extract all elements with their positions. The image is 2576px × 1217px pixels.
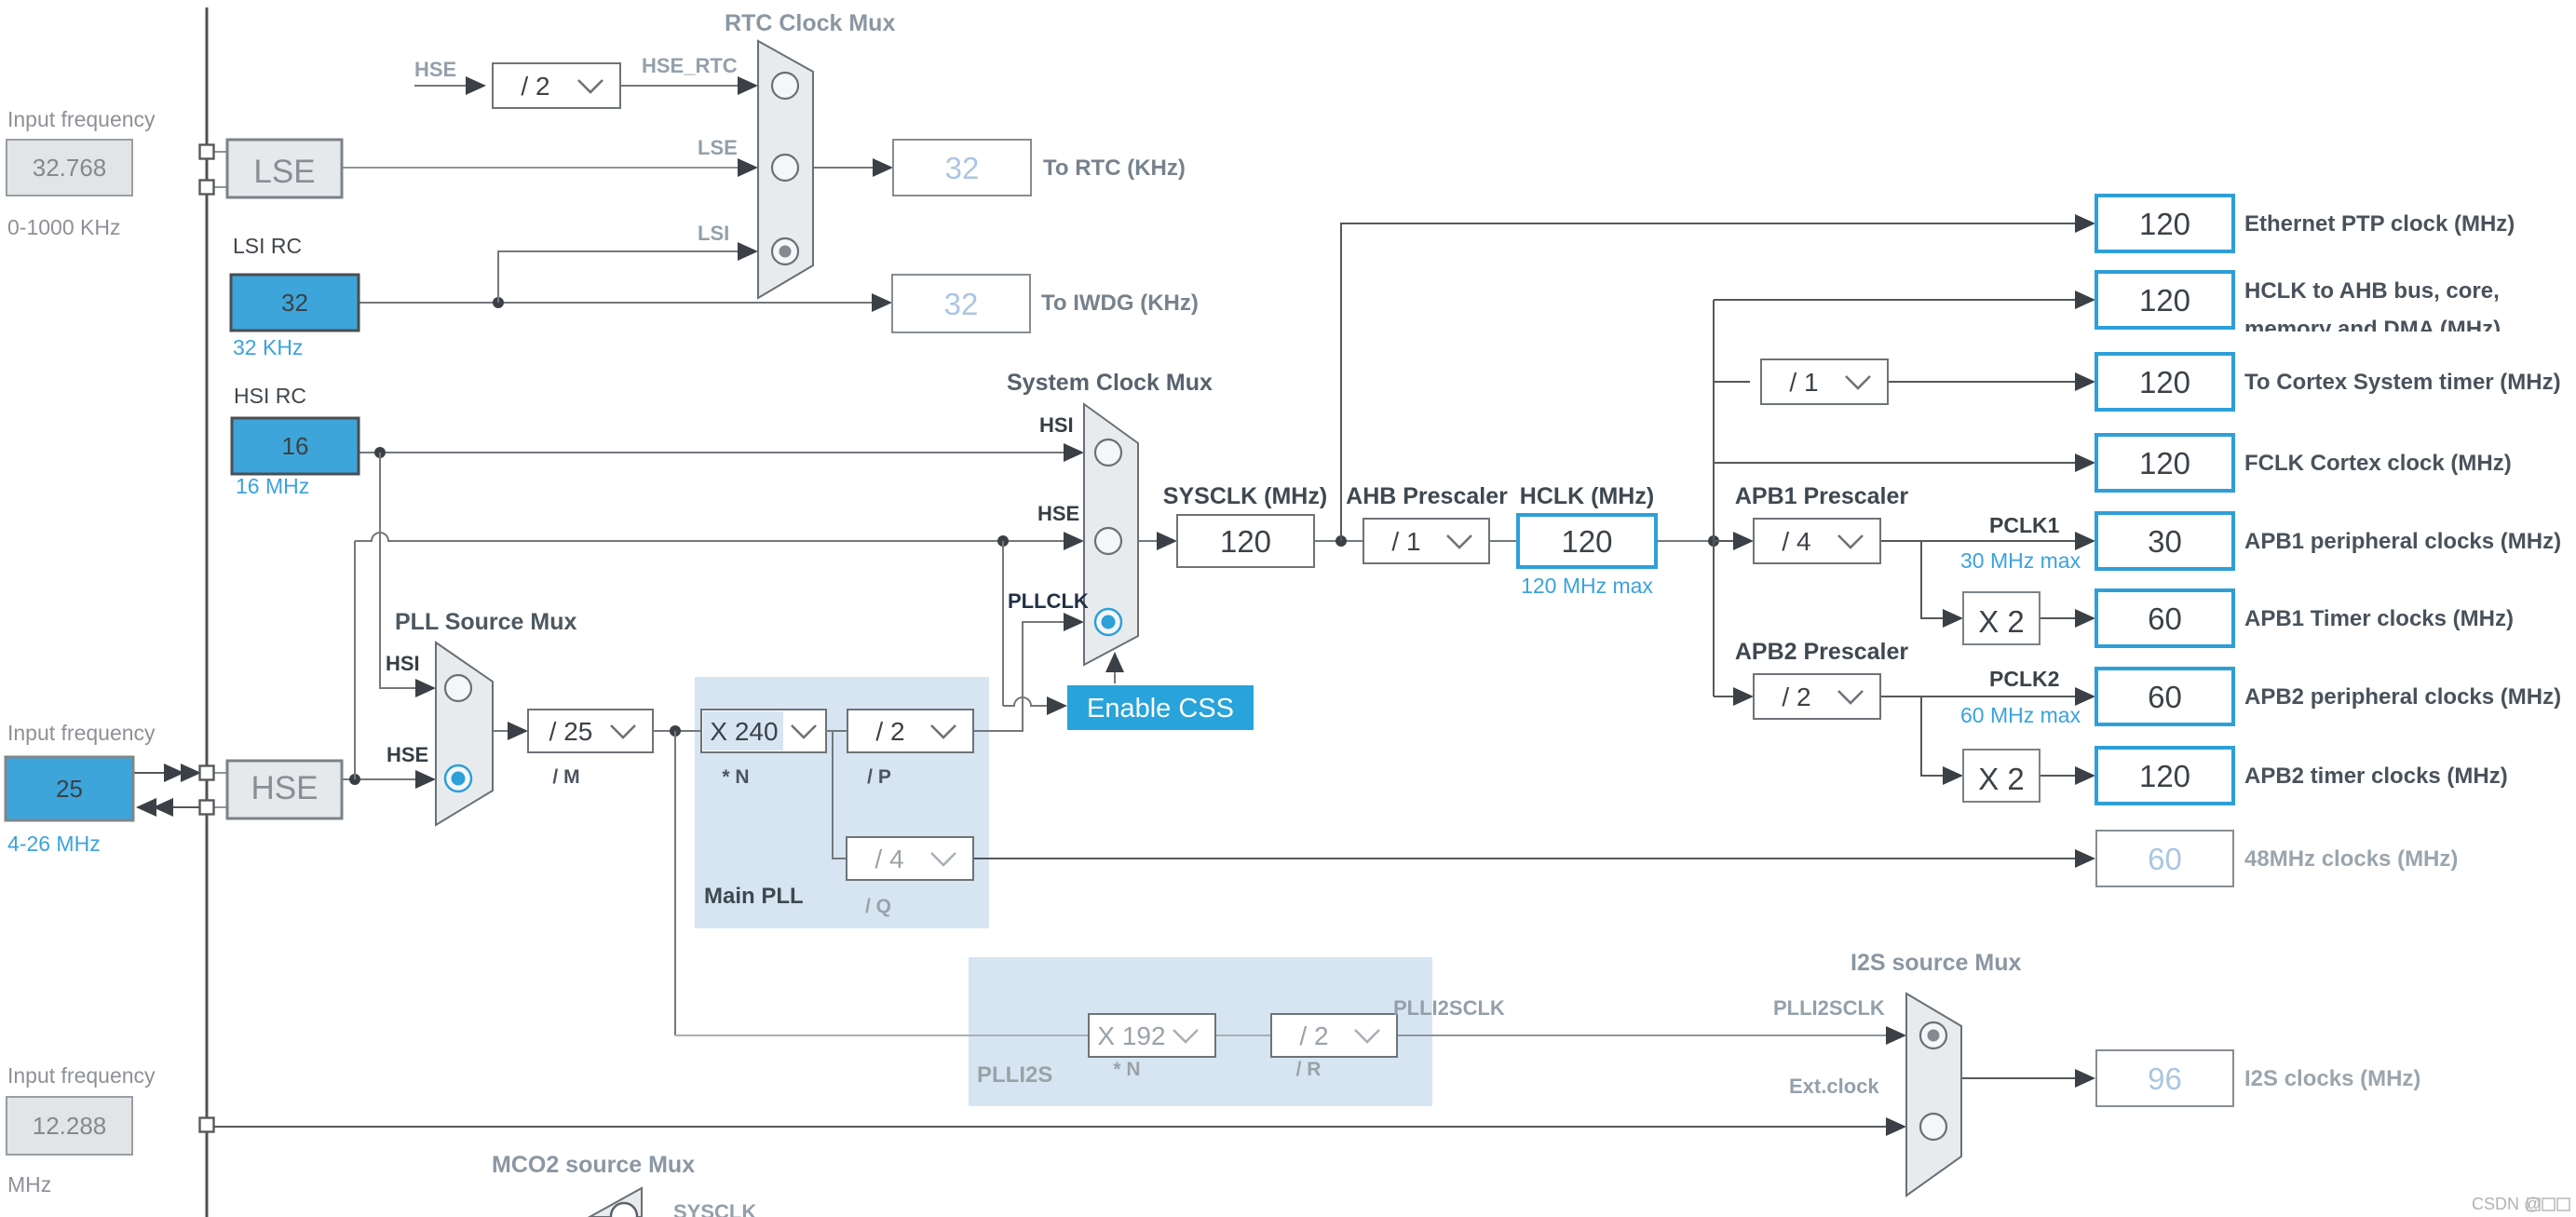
- svg-text:96: 96: [2148, 1061, 2182, 1096]
- svg-text:HSI: HSI: [1039, 413, 1074, 437]
- svg-text:4-26 MHz: 4-26 MHz: [7, 832, 101, 856]
- svg-text:/ 2: / 2: [875, 717, 904, 746]
- svg-text:To RTC (KHz): To RTC (KHz): [1043, 156, 1186, 181]
- svg-text:PLLI2S: PLLI2S: [977, 1062, 1052, 1088]
- svg-text:/ 25: / 25: [549, 717, 593, 746]
- svg-text:120: 120: [2139, 207, 2190, 241]
- svg-text:120 MHz max: 120 MHz max: [1521, 574, 1653, 598]
- svg-text:Ext.clock: Ext.clock: [1789, 1075, 1879, 1098]
- svg-text:16: 16: [282, 432, 309, 460]
- svg-text:60: 60: [2148, 680, 2182, 714]
- svg-text:32: 32: [945, 151, 980, 185]
- svg-text:HSE: HSE: [251, 770, 319, 806]
- svg-text:32.768: 32.768: [33, 154, 107, 182]
- svg-text:PLLCLK: PLLCLK: [1008, 589, 1089, 613]
- svg-text:HCLK (MHz): HCLK (MHz): [1520, 483, 1654, 509]
- svg-text:* N: * N: [1113, 1059, 1140, 1080]
- svg-text:120: 120: [2139, 283, 2190, 318]
- svg-text:32 KHz: 32 KHz: [233, 335, 303, 359]
- svg-text:120: 120: [2139, 365, 2190, 399]
- svg-text:X 192: X 192: [1097, 1021, 1165, 1050]
- svg-text:RTC Clock Mux: RTC Clock Mux: [725, 10, 895, 36]
- svg-text:/ 2: / 2: [1299, 1021, 1328, 1050]
- svg-text:PLL Source Mux: PLL Source Mux: [395, 609, 577, 635]
- svg-text:Input frequency: Input frequency: [7, 721, 156, 745]
- svg-text:120: 120: [1561, 524, 1612, 559]
- svg-text:/ 2: / 2: [521, 72, 549, 101]
- svg-text:30 MHz max: 30 MHz max: [1960, 548, 2081, 573]
- svg-text:MCO2 source Mux: MCO2 source Mux: [492, 1152, 695, 1178]
- svg-text:MHz: MHz: [7, 1172, 51, 1197]
- svg-text:LSI: LSI: [698, 222, 729, 245]
- svg-text:60: 60: [2148, 602, 2182, 636]
- svg-text:HSE: HSE: [414, 58, 456, 81]
- svg-text:HSI: HSI: [386, 652, 420, 675]
- svg-text:HCLK to AHB bus, core,: HCLK to AHB bus, core,: [2244, 278, 2500, 304]
- svg-text:Main PLL: Main PLL: [704, 884, 804, 909]
- svg-text:/ 4: / 4: [874, 845, 903, 873]
- svg-text:System Clock Mux: System Clock Mux: [1007, 370, 1213, 396]
- svg-text:120: 120: [2139, 446, 2190, 480]
- svg-text:APB2 peripheral clocks (MHz): APB2 peripheral clocks (MHz): [2244, 684, 2561, 710]
- svg-text:60 MHz max: 60 MHz max: [1960, 703, 2081, 727]
- svg-text:120: 120: [2139, 759, 2190, 793]
- svg-text:/ M: / M: [552, 766, 579, 788]
- svg-text:X 240: X 240: [710, 717, 778, 746]
- svg-text:* N: * N: [722, 766, 749, 788]
- svg-text:16 MHz: 16 MHz: [236, 474, 309, 498]
- svg-text:X 2: X 2: [1978, 604, 2025, 639]
- svg-text:HSI RC: HSI RC: [234, 384, 306, 408]
- svg-text:/ 4: / 4: [1782, 527, 1810, 556]
- svg-text:I2S clocks (MHz): I2S clocks (MHz): [2244, 1066, 2420, 1091]
- svg-text:/ P: / P: [867, 766, 891, 788]
- svg-text:Enable CSS: Enable CSS: [1087, 694, 1234, 723]
- svg-text:60: 60: [2148, 842, 2182, 876]
- svg-text:Input frequency: Input frequency: [7, 1063, 156, 1088]
- svg-text:/ 1: / 1: [1391, 527, 1420, 556]
- svg-text:APB2 Prescaler: APB2 Prescaler: [1735, 639, 1909, 665]
- svg-text:LSE: LSE: [698, 136, 738, 159]
- svg-text:PCLK2: PCLK2: [1989, 667, 2059, 691]
- svg-text:To IWDG (KHz): To IWDG (KHz): [1041, 291, 1199, 316]
- svg-text:/ R: / R: [1296, 1059, 1322, 1080]
- svg-text:120: 120: [1220, 524, 1271, 559]
- svg-text:LSE: LSE: [253, 154, 315, 190]
- svg-text:To Cortex System timer (MHz): To Cortex System timer (MHz): [2244, 370, 2561, 395]
- svg-text:I2S source Mux: I2S source Mux: [1851, 950, 2021, 976]
- svg-text:32: 32: [281, 289, 308, 317]
- svg-text:HSE_RTC: HSE_RTC: [642, 54, 738, 77]
- svg-text:AHB Prescaler: AHB Prescaler: [1346, 483, 1508, 509]
- svg-text:/ 2: / 2: [1782, 683, 1810, 711]
- svg-text:Ethernet PTP clock (MHz): Ethernet PTP clock (MHz): [2244, 211, 2515, 237]
- svg-text:X 2: X 2: [1978, 762, 2025, 796]
- svg-text:/ 1: / 1: [1789, 368, 1818, 397]
- svg-text:Input frequency: Input frequency: [7, 107, 156, 131]
- svg-text:PCLK1: PCLK1: [1989, 513, 2060, 537]
- svg-text:PLLI2SCLK: PLLI2SCLK: [1773, 996, 1885, 1020]
- svg-text:LSI RC: LSI RC: [233, 234, 302, 258]
- svg-text:25: 25: [56, 775, 83, 803]
- svg-text:48MHz clocks (MHz): 48MHz clocks (MHz): [2244, 846, 2458, 872]
- svg-text:APB1 Timer clocks (MHz): APB1 Timer clocks (MHz): [2244, 606, 2514, 631]
- svg-text:/ Q: / Q: [865, 896, 891, 917]
- svg-text:0-1000 KHz: 0-1000 KHz: [7, 215, 120, 239]
- svg-text:12.288: 12.288: [33, 1112, 107, 1140]
- svg-text:PLLI2SCLK: PLLI2SCLK: [1393, 996, 1505, 1020]
- svg-text:APB1 peripheral clocks (MHz): APB1 peripheral clocks (MHz): [2244, 529, 2561, 554]
- svg-text:FCLK Cortex clock (MHz): FCLK Cortex clock (MHz): [2244, 451, 2512, 476]
- svg-text:HSE: HSE: [386, 743, 428, 766]
- svg-text:APB1 Prescaler: APB1 Prescaler: [1735, 483, 1909, 509]
- svg-text:HSE: HSE: [1037, 502, 1079, 525]
- svg-text:SYSCLK (MHz): SYSCLK (MHz): [1163, 483, 1327, 509]
- svg-text:32: 32: [944, 287, 979, 321]
- svg-text:SYSCLK: SYSCLK: [673, 1200, 756, 1217]
- svg-text:APB2 timer clocks (MHz): APB2 timer clocks (MHz): [2244, 764, 2508, 789]
- svg-text:30: 30: [2148, 524, 2182, 559]
